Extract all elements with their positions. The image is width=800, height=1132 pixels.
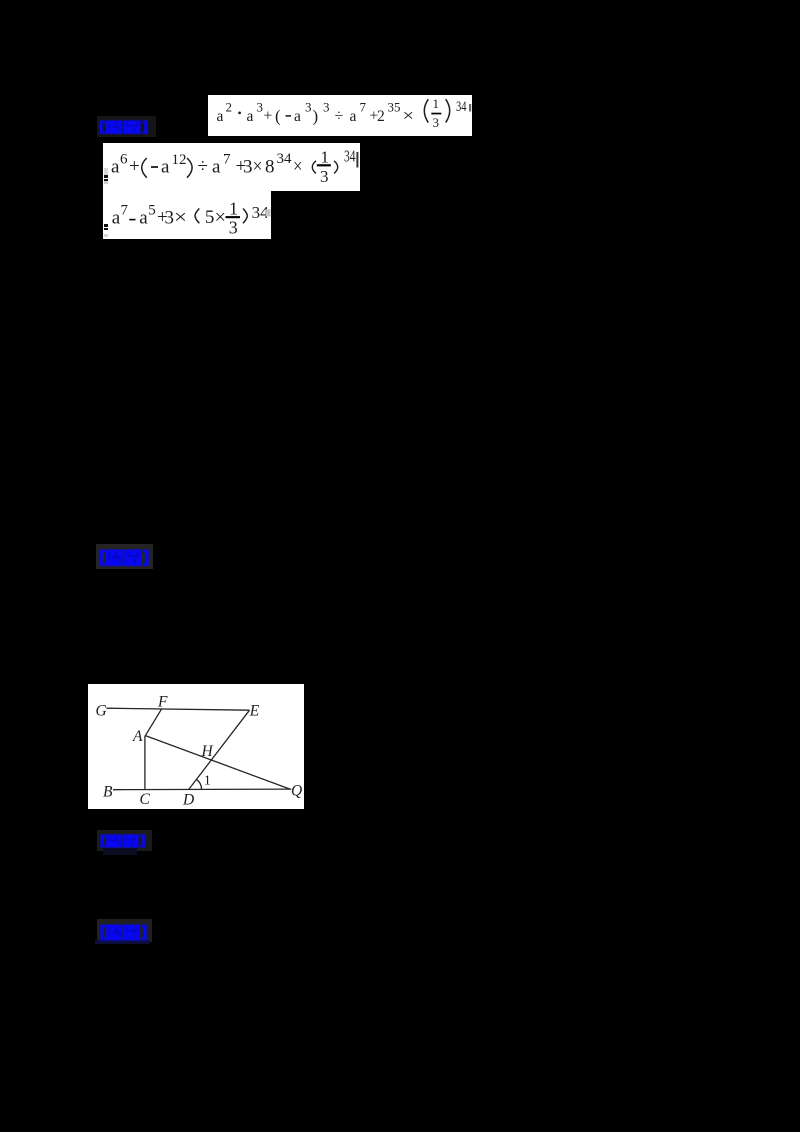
line E-D xyxy=(189,710,250,789)
svg-text:a: a xyxy=(212,157,221,178)
svg-text:34: 34 xyxy=(456,99,467,115)
svg-text:a: a xyxy=(350,108,357,125)
svg-text:A: A xyxy=(132,728,143,745)
line A-C xyxy=(144,736,146,790)
svg-text:÷: ÷ xyxy=(335,108,344,125)
svg-text:E: E xyxy=(249,703,260,720)
svg-text:a: a xyxy=(247,108,254,125)
svg-text:1: 1 xyxy=(229,199,238,219)
formula image 2 xyxy=(103,143,360,191)
svg-text:Q: Q xyxy=(291,783,302,800)
svg-text:8: 8 xyxy=(265,157,275,178)
svg-text:a: a xyxy=(139,208,148,229)
equals sign before formula 2 line xyxy=(104,168,109,175)
svg-text:×: × xyxy=(215,207,227,229)
equals sign before formula 3 line xyxy=(104,224,109,227)
svg-text:1: 1 xyxy=(204,773,211,788)
svg-text:3: 3 xyxy=(165,208,175,229)
svg-text:a: a xyxy=(161,157,170,178)
svg-text:×: × xyxy=(293,156,303,178)
svg-text:a: a xyxy=(294,108,301,125)
svg-text:B: B xyxy=(103,784,113,801)
blue label 1 xyxy=(97,116,156,137)
svg-text:3: 3 xyxy=(243,157,253,178)
svg-text:1: 1 xyxy=(433,96,440,111)
svg-text:a: a xyxy=(217,108,224,125)
angle arc at D xyxy=(197,779,202,789)
svg-text:7: 7 xyxy=(360,100,367,115)
svg-text:+: + xyxy=(129,156,140,177)
svg-text:a: a xyxy=(112,208,121,229)
svg-text:2: 2 xyxy=(377,108,385,125)
svg-text:H: H xyxy=(201,743,214,760)
svg-text:5: 5 xyxy=(205,207,215,228)
svg-text:34: 34 xyxy=(344,147,356,166)
geometry figure xyxy=(88,684,304,809)
svg-text:×: × xyxy=(174,207,187,229)
svg-text:C: C xyxy=(140,791,151,808)
svg-text:1: 1 xyxy=(321,148,330,167)
svg-text:a: a xyxy=(111,157,120,178)
svg-text:34: 34 xyxy=(277,151,293,167)
svg-text:G: G xyxy=(96,703,107,720)
svg-text:): ) xyxy=(313,107,319,126)
svg-text:÷: ÷ xyxy=(198,156,208,177)
svg-text:+: + xyxy=(264,108,273,125)
svg-text:×: × xyxy=(253,156,263,178)
svg-text:•: • xyxy=(238,106,242,120)
svg-text:5: 5 xyxy=(148,203,156,219)
svg-text:12: 12 xyxy=(172,152,187,168)
blue label 3 xyxy=(97,830,152,851)
formula image 3 xyxy=(103,191,271,239)
svg-text:7: 7 xyxy=(223,152,231,168)
svg-text:D: D xyxy=(182,792,194,809)
svg-text:3: 3 xyxy=(320,167,329,186)
svg-text:3: 3 xyxy=(305,100,312,115)
svg-text:35: 35 xyxy=(388,100,401,115)
svg-text:7: 7 xyxy=(121,203,129,219)
svg-text:2: 2 xyxy=(226,100,233,115)
line F-A xyxy=(145,709,161,736)
svg-text:(: ( xyxy=(275,107,281,126)
svg-text:6: 6 xyxy=(120,152,128,168)
line A-Q xyxy=(145,736,290,790)
svg-text:3: 3 xyxy=(229,218,238,238)
formula image 1: a^2 . a^3 + (-a^3)^3 / a^7 + 2^35 x (1/3)^34 xyxy=(208,95,472,136)
svg-text:3: 3 xyxy=(433,115,440,130)
blue label 4 xyxy=(97,919,152,942)
svg-text:3: 3 xyxy=(257,100,264,115)
svg-text:F: F xyxy=(157,694,168,711)
line G-E xyxy=(106,708,249,710)
line B-Q xyxy=(113,788,291,791)
blue label 2 xyxy=(96,544,153,569)
svg-text:×: × xyxy=(403,106,415,125)
svg-text:3: 3 xyxy=(323,100,330,115)
